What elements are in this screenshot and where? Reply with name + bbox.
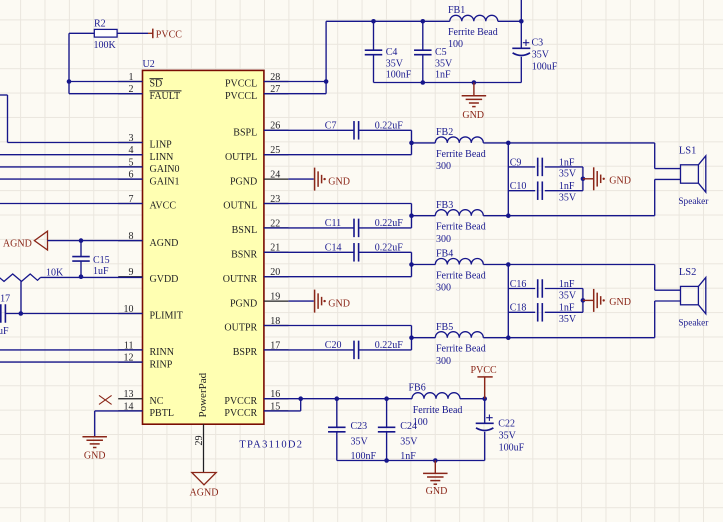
svg-text:9: 9 (129, 267, 134, 278)
svg-text:AVCC: AVCC (150, 201, 177, 212)
svg-text:OUTNR: OUTNR (223, 274, 258, 285)
svg-text:100uF: 100uF (499, 442, 525, 453)
svg-text:LINP: LINP (150, 140, 173, 151)
svg-text:0.22uF: 0.22uF (375, 218, 404, 229)
svg-text:GAIN0: GAIN0 (150, 164, 180, 175)
svg-text:19: 19 (270, 292, 280, 303)
svg-text:100uF: 100uF (532, 62, 558, 73)
svg-text:C16: C16 (510, 279, 527, 290)
svg-text:Ferrite Bead: Ferrite Bead (436, 149, 486, 160)
svg-text:24: 24 (270, 170, 280, 181)
svg-text:C4: C4 (386, 47, 398, 58)
svg-text:FB5: FB5 (436, 322, 453, 333)
svg-text:C24: C24 (400, 421, 417, 432)
svg-text:Ferrite Bead: Ferrite Bead (448, 27, 498, 38)
svg-text:C20: C20 (325, 340, 342, 351)
svg-text:1nF: 1nF (559, 303, 575, 314)
svg-text:C23: C23 (351, 421, 368, 432)
svg-text:LINN: LINN (150, 152, 174, 163)
svg-text:FAULT: FAULT (150, 91, 181, 102)
svg-text:300: 300 (436, 234, 451, 245)
svg-text:100: 100 (448, 39, 463, 50)
svg-text:300: 300 (436, 283, 451, 294)
svg-text:BSPR: BSPR (233, 347, 258, 358)
svg-text:1uF: 1uF (93, 266, 109, 277)
svg-text:FB1: FB1 (448, 5, 465, 16)
svg-text:FB3: FB3 (436, 200, 453, 211)
svg-text:Ferrite Bead: Ferrite Bead (436, 222, 486, 233)
svg-text:0.22uF: 0.22uF (375, 242, 404, 253)
svg-text:Ferrite Bead: Ferrite Bead (436, 344, 486, 355)
svg-text:C15: C15 (93, 255, 110, 266)
svg-text:GND: GND (328, 298, 350, 309)
svg-text:GVDD: GVDD (150, 274, 179, 285)
svg-text:29: 29 (194, 436, 205, 446)
svg-text:PVCCR: PVCCR (224, 396, 257, 407)
svg-text:FB6: FB6 (409, 383, 426, 394)
svg-text:35V: 35V (559, 193, 577, 204)
svg-text:C3: C3 (532, 37, 544, 48)
svg-text:PVCC: PVCC (471, 365, 497, 376)
svg-text:FB4: FB4 (436, 249, 453, 260)
svg-text:FB2: FB2 (436, 127, 453, 138)
svg-text:100K: 100K (94, 40, 117, 51)
svg-text:35V: 35V (532, 50, 550, 61)
svg-text:Speaker: Speaker (678, 197, 709, 207)
svg-text:PVCCL: PVCCL (225, 79, 257, 90)
svg-text:C18: C18 (510, 303, 527, 314)
svg-text:13: 13 (124, 389, 134, 400)
svg-text:10K: 10K (46, 268, 64, 279)
svg-text:AGND: AGND (150, 238, 179, 249)
svg-text:1uF: 1uF (0, 326, 9, 337)
svg-text:GND: GND (462, 110, 484, 121)
svg-text:Ferrite Bead: Ferrite Bead (413, 405, 463, 416)
svg-text:GND: GND (328, 176, 350, 187)
svg-text:C9: C9 (510, 157, 522, 168)
svg-text:BSNL: BSNL (232, 225, 258, 236)
svg-text:LS1: LS1 (679, 145, 697, 156)
svg-text:35V: 35V (400, 437, 418, 448)
svg-text:35V: 35V (351, 437, 369, 448)
svg-text:35V: 35V (435, 58, 453, 69)
svg-text:C22: C22 (498, 419, 515, 430)
svg-text:1nF: 1nF (435, 70, 451, 81)
svg-text:C10: C10 (510, 181, 527, 192)
svg-text:GAIN1: GAIN1 (150, 176, 180, 187)
svg-text:0.22uF: 0.22uF (375, 120, 404, 131)
svg-text:35V: 35V (559, 169, 577, 180)
svg-text:R2: R2 (94, 19, 106, 30)
svg-text:35V: 35V (559, 314, 577, 325)
svg-text:PBTL: PBTL (150, 408, 174, 419)
svg-text:GND: GND (609, 297, 631, 308)
svg-text:GND: GND (426, 486, 448, 497)
svg-text:C5: C5 (435, 47, 447, 58)
svg-text:BSNR: BSNR (231, 250, 257, 261)
svg-text:C11: C11 (325, 218, 341, 229)
svg-text:35V: 35V (386, 58, 404, 69)
svg-text:U2: U2 (143, 59, 155, 70)
svg-text:PGND: PGND (230, 176, 257, 187)
svg-text:1nF: 1nF (559, 157, 575, 168)
svg-text:300: 300 (436, 161, 451, 172)
svg-text:RINN: RINN (150, 347, 174, 358)
svg-text:PowerPad: PowerPad (197, 372, 209, 417)
svg-text:OUTPL: OUTPL (225, 152, 257, 163)
svg-text:NC: NC (150, 396, 164, 407)
svg-text:PLIMIT: PLIMIT (150, 311, 183, 322)
svg-text:35V: 35V (559, 290, 577, 301)
svg-text:RINP: RINP (150, 359, 173, 370)
svg-text:300: 300 (436, 356, 451, 367)
svg-text:TPA3110D2: TPA3110D2 (239, 440, 303, 451)
svg-text:Ferrite Bead: Ferrite Bead (436, 271, 486, 282)
svg-text:C17: C17 (0, 294, 10, 305)
svg-text:PGND: PGND (230, 298, 257, 309)
svg-text:GND: GND (609, 175, 631, 186)
svg-text:AGND: AGND (3, 238, 32, 249)
svg-text:0.22uF: 0.22uF (375, 340, 404, 351)
svg-text:OUTNL: OUTNL (223, 201, 257, 212)
svg-text:SD: SD (150, 79, 163, 90)
svg-text:1nF: 1nF (559, 279, 575, 290)
svg-text:PVCC: PVCC (156, 29, 182, 40)
svg-text:Speaker: Speaker (678, 318, 709, 328)
svg-text:1nF: 1nF (559, 181, 575, 192)
svg-text:OUTPR: OUTPR (224, 323, 257, 334)
svg-text:C14: C14 (325, 242, 342, 253)
svg-text:35V: 35V (499, 430, 517, 441)
svg-text:100nF: 100nF (386, 70, 412, 81)
svg-text:AGND: AGND (190, 487, 219, 498)
svg-text:GND: GND (84, 451, 106, 462)
svg-text:PVCCL: PVCCL (225, 91, 257, 102)
svg-text:BSPL: BSPL (233, 128, 257, 139)
svg-text:PVCCR: PVCCR (224, 408, 257, 419)
svg-text:LS2: LS2 (679, 267, 697, 278)
svg-text:C7: C7 (325, 120, 337, 131)
